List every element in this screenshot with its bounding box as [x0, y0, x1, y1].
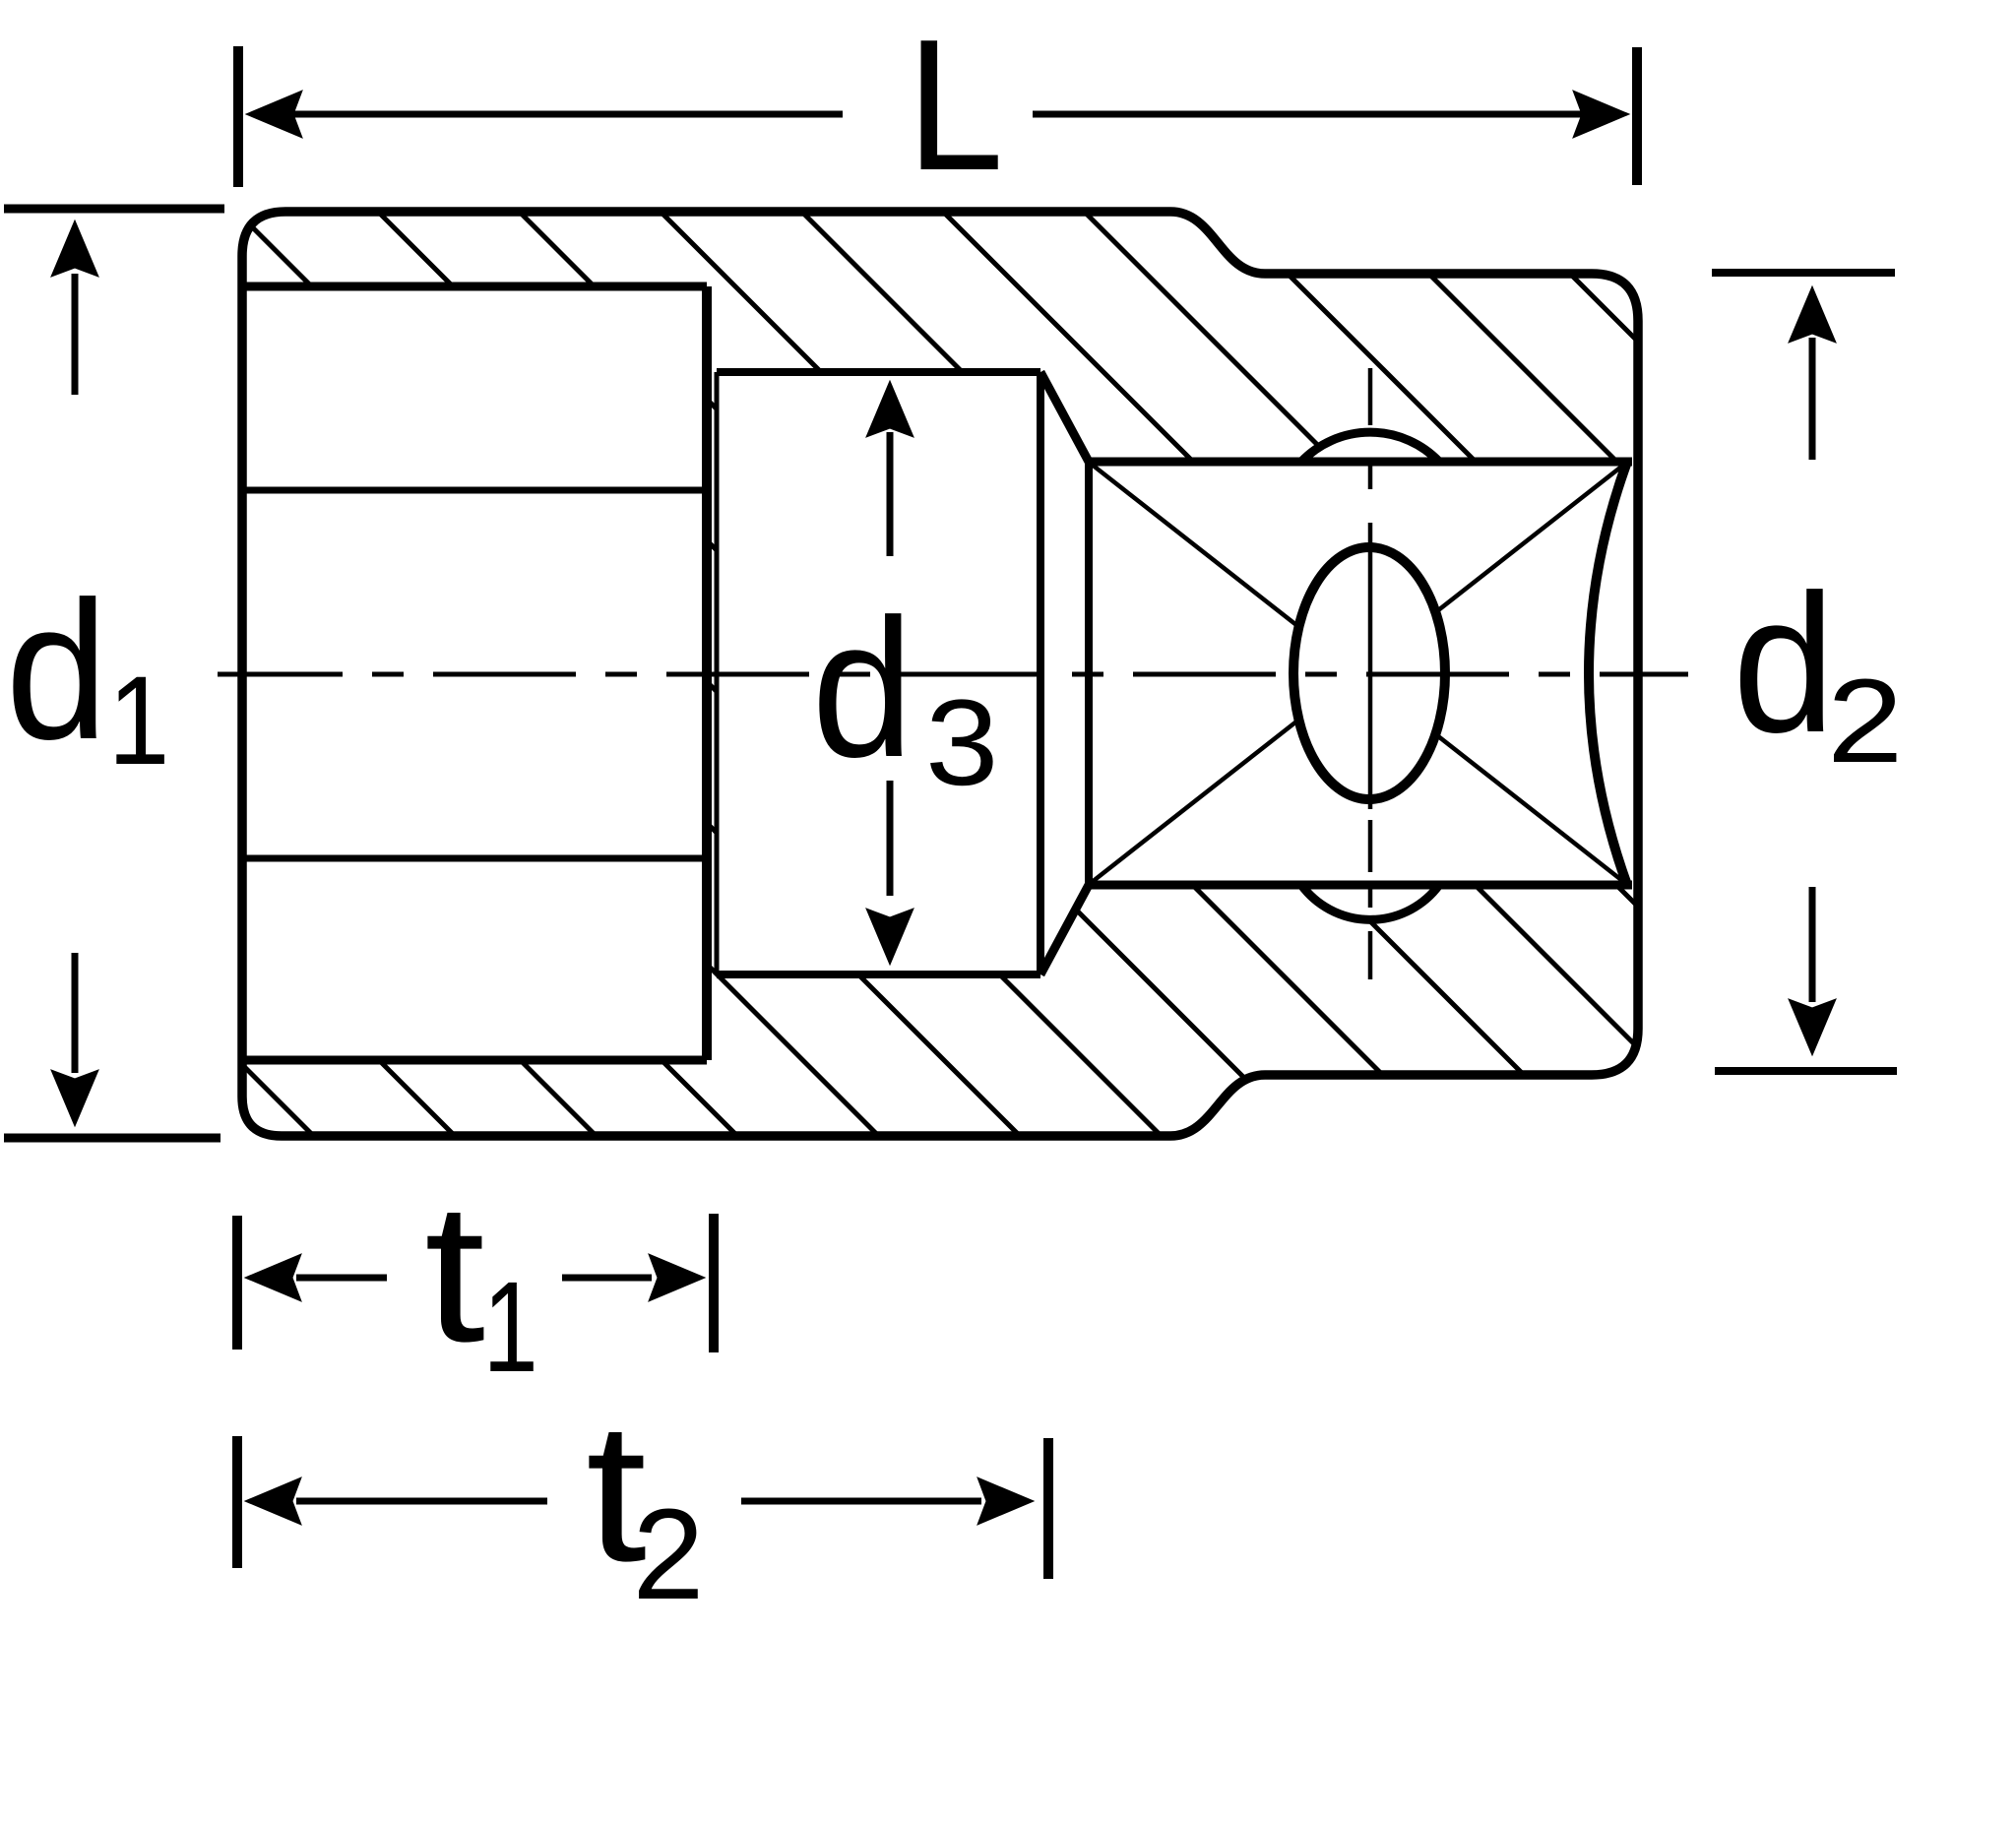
dimension d1 upper shaft: [72, 274, 79, 395]
dimension d2 arrow up: [1789, 286, 1836, 343]
dimension d1 bottom tick: [4, 1134, 220, 1143]
dimension L arrow right: [1573, 91, 1629, 138]
svg-text:2: 2: [633, 1481, 705, 1626]
dimension d1 lower shaft: [72, 953, 79, 1073]
dimension d3 arrow up: [866, 381, 913, 437]
dimension t1 right tick: [709, 1214, 719, 1352]
dimension d2 arrow down: [1789, 999, 1836, 1055]
dimension d2 upper shaft: [1809, 338, 1816, 460]
dimension t1 left tick: [232, 1216, 242, 1350]
dimension t1 arrow left: [245, 1254, 301, 1301]
svg-text:d: d: [1732, 553, 1835, 774]
d3 bore bottom line: [717, 971, 1040, 978]
d1 bore top wall line: [242, 283, 707, 291]
svg-text:L: L: [907, 0, 1004, 209]
hexagon edge top: [244, 487, 702, 494]
dimension L arrow left: [246, 91, 302, 138]
square drive cavity bottom line: [1089, 881, 1632, 890]
dimension d3 arrow down: [866, 909, 913, 965]
d3 bore end face: [1037, 372, 1044, 974]
dimension t2 arrow left: [245, 1477, 301, 1525]
d3 bore mouth edge: [715, 372, 720, 974]
dimension d1 arrow down: [51, 1070, 98, 1126]
dimension d2 bottom tick: [1715, 1067, 1897, 1075]
dimension L line right: [1033, 111, 1583, 118]
dimension t2 right tick: [1043, 1438, 1053, 1579]
dimension L right tick: [1632, 47, 1642, 185]
svg-text:3: 3: [925, 675, 998, 811]
chamfer top: [1040, 372, 1089, 462]
d3 bore top line: [717, 368, 1040, 376]
ball detent hole ellipse: [1293, 547, 1445, 799]
socket body outer profile: [242, 212, 1638, 1136]
dimension t2 arrow right: [977, 1477, 1034, 1525]
dimension t2 line right: [741, 1498, 981, 1505]
svg-text:1: 1: [108, 650, 170, 790]
dimension d2 top tick: [1712, 269, 1895, 277]
dimension d3 upper shaft: [887, 432, 894, 556]
svg-text:d: d: [6, 560, 108, 781]
svg-text:d: d: [812, 578, 913, 798]
svg-text:t: t: [424, 1162, 485, 1382]
chamfer bottom: [1040, 885, 1089, 974]
dimension t1 line left: [296, 1275, 387, 1282]
dimension t1 arrow right: [649, 1254, 705, 1301]
svg-text:1: 1: [483, 1254, 538, 1399]
vertical centre line of square drive: [1368, 368, 1373, 979]
dimension t1 line right: [562, 1275, 652, 1282]
ball detent arc bottom: [1301, 885, 1439, 919]
square drive diagonal 1: [1091, 464, 1625, 883]
ball detent arc top: [1301, 432, 1439, 462]
square drive diagonal 2: [1091, 464, 1625, 883]
dimension d1 top tick: [4, 205, 224, 214]
dimension L left tick: [233, 46, 243, 187]
hexagon edge bottom: [244, 855, 702, 862]
dimension d1 arrow up: [51, 220, 98, 277]
d1 bore end wall: [702, 286, 712, 1060]
concave back wall arc: [1589, 462, 1627, 885]
svg-text:2: 2: [1827, 654, 1903, 786]
dimension d2 lower shaft: [1809, 887, 1816, 1002]
dimension t2 left tick: [232, 1436, 242, 1568]
dimension t2 line left: [296, 1498, 547, 1505]
square drive cavity top line: [1089, 458, 1632, 467]
dimension L line left: [291, 111, 843, 118]
horizontal centre line: [218, 672, 1688, 677]
square drive cavity left edge: [1085, 462, 1093, 885]
d1 bore bottom wall line: [242, 1056, 707, 1065]
dimension d3 lower shaft: [887, 781, 894, 896]
